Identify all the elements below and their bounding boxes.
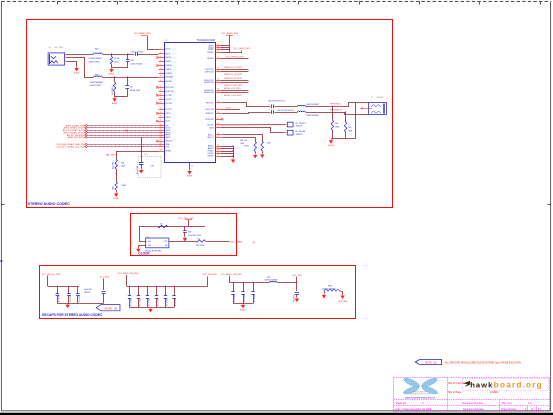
svg-text:HPLOUT: HPLOUT: [206, 102, 214, 104]
svg-text:GPIO1: GPIO1: [166, 113, 172, 115]
wire bias rail: [102, 77, 158, 79]
IC bottom pin ground: [189, 162, 191, 170]
svg-text:IOVDD: IOVDD: [208, 49, 214, 51]
wire down to R45: [116, 151, 118, 160]
svg-text:VCC_AVDD_1V8_RVS: VCC_AVDD_1V8_RVS: [221, 273, 242, 276]
svg-text:RLOPM: RLOPM: [166, 103, 173, 105]
svg-text:C70: C70: [144, 154, 147, 156]
svg-text:LEFTLOM: LEFTLOM: [205, 71, 214, 73]
svg-text:12: 12: [160, 94, 162, 96]
wire rc rail: [112, 67, 128, 69]
svg-text:www.innovativesolutions.net: www.innovativesolutions.net: [405, 397, 435, 400]
hawkboard logo frame: [463, 379, 549, 391]
decaps section box: [40, 266, 356, 319]
svg-text:4: 4: [160, 60, 161, 62]
svg-text:HPRCOM: HPRCOM: [206, 119, 214, 121]
op IC U9 TLV320AIC3106: [165, 39, 216, 162]
svg-text:17: 17: [160, 116, 162, 118]
capacitor g4: [295, 292, 299, 294]
svg-text:Page Number :: Page Number :: [502, 408, 518, 411]
svg-text:Document Number :: Document Number :: [462, 402, 485, 405]
svg-text:42: 42: [217, 112, 219, 114]
wire decap rail g2: [127, 286, 208, 288]
svg-text:28: 28: [160, 150, 162, 152]
svg-text:1608: 1608: [114, 61, 118, 63]
bus lines I2C: [56, 143, 158, 146]
svg-text:33: 33: [191, 166, 193, 168]
wire clock vcc rail: [140, 226, 205, 228]
svg-text:hawk: hawk: [470, 380, 493, 389]
svg-text:FB4: FB4: [95, 48, 98, 50]
svg-text:0.1uF/16V: 0.1uF/16V: [254, 294, 256, 302]
resistor R41 mic termination: [111, 54, 113, 57]
connector J6 mic jack: [48, 46, 64, 65]
company logo X: [403, 376, 439, 395]
svg-text:1608: 1608: [335, 126, 339, 128]
svg-text:9: 9: [160, 80, 161, 82]
svg-text:SCL: SCL: [166, 146, 170, 148]
wire HPLCOM short: [221, 109, 240, 111]
svg-text:0.1uF/16V: 0.1uF/16V: [79, 294, 81, 302]
svg-text:AGND: AGND: [109, 73, 115, 76]
svg-text:19: 19: [160, 124, 162, 126]
svg-text:VCC_DVDD_RVS: VCC_DVDD_RVS: [234, 48, 251, 50]
test pad TP2: [287, 130, 293, 135]
svg-text:Date : Friday, December 04, 20: Date : Friday, December 04, 2009: [396, 408, 433, 411]
junction: [111, 53, 112, 54]
title block dividers: [447, 378, 449, 412]
capacitor decap g3: [253, 282, 255, 291]
svg-text:OUT: OUT: [164, 241, 167, 243]
svg-text:I 04: I 04: [252, 242, 255, 244]
zone tick left: [1, 204, 5, 206]
svg-text:18: 18: [160, 120, 162, 122]
svg-text:TAS_TEST: TAS_TEST: [106, 153, 117, 156]
svg-text:TANT-B: TANT-B: [84, 291, 91, 294]
svg-text:47: 47: [217, 136, 219, 138]
svg-text:25: 25: [160, 140, 162, 142]
resistor R46: [254, 142, 257, 152]
svg-text:VCM: VCM: [226, 107, 231, 109]
svg-text:35: 35: [217, 70, 219, 72]
capacitor C65 bias filter: [127, 77, 129, 86]
wire AUX_L: [222, 135, 263, 142]
svg-text:LINE2L: LINE2L: [166, 69, 172, 71]
resistor R45: [115, 160, 118, 170]
IC left pins: [159, 48, 172, 51]
wire to HP jack L: [306, 103, 369, 107]
capacitor decap g2: [165, 286, 167, 295]
svg-text:15: 15: [160, 108, 162, 110]
svg-text:VCC_RVS: VCC_RVS: [100, 277, 110, 279]
svg-text:MICDET: MICDET: [166, 81, 174, 83]
capacitor C63 series: [135, 52, 137, 56]
svg-text:24: 24: [160, 136, 162, 138]
svg-text:0.1uF/16V: 0.1uF/16V: [293, 294, 295, 302]
capacitor decap g2: [129, 286, 131, 295]
svg-text:0.1uF/16V 1608: 0.1uF/16V 1608: [188, 235, 201, 237]
stereo audio codec section box: [27, 20, 393, 208]
svg-text:LINEOUT_LM_RVS: LINEOUT_LM_RVS: [224, 74, 242, 76]
svg-text:MIC_JACK: MIC_JACK: [55, 46, 65, 49]
svg-text:HPLCOM: HPLCOM: [166, 87, 174, 89]
svg-text:MIC3L: MIC3L: [166, 54, 171, 56]
svg-text:VCC_AUD_DL_RVS: VCC_AUD_DL_RVS: [42, 273, 61, 276]
wire R43 to label: [206, 241, 230, 243]
svg-text:2200pF 1608: 2200pF 1608: [130, 90, 141, 92]
svg-text:1: 1: [160, 48, 161, 50]
svg-text:1608: 1608: [113, 186, 115, 190]
svg-text:C64: C64: [131, 60, 134, 62]
svg-text:HP_SENSE: HP_SENSE: [296, 131, 306, 133]
svg-text:45: 45: [217, 126, 219, 128]
svg-text:0.1uF/16V: 0.1uF/16V: [140, 298, 142, 306]
ferrite bead FB5: [94, 76, 103, 77]
ground bridge right DGND: [340, 294, 344, 299]
svg-text:DRVDD: DRVDD: [207, 52, 214, 54]
capacitor tant 10uF: [102, 291, 106, 293]
svg-text:VCC_AVDD_3V3_RVS: VCC_AVDD_3V3_RVS: [118, 272, 139, 275]
pin stubs J6: [65, 54, 67, 56]
svg-text:33: 33: [217, 57, 219, 59]
svg-text:36: 36: [217, 79, 219, 81]
svg-text:10: 10: [160, 86, 162, 88]
svg-text:OSCILLATOR SMD: OSCILLATOR SMD: [145, 249, 162, 252]
svg-text:100R: 100R: [122, 185, 127, 187]
svg-text:34: 34: [217, 68, 219, 70]
capacitor decap g2: [156, 286, 158, 295]
svg-text:AGND: AGND: [328, 144, 334, 147]
wire LEFTLOP nets: [221, 69, 249, 71]
svg-text:I2S: I2S: [125, 130, 129, 132]
ferrite bead FB4: [94, 53, 103, 54]
note callout 30: [415, 360, 441, 365]
svg-text:1.0: 1.0: [528, 402, 532, 405]
svg-text:1608: 1608: [121, 166, 125, 168]
oscillator U10: [145, 237, 169, 253]
wire bead to cap: [102, 54, 134, 56]
svg-text:RESET: RESET: [166, 151, 173, 153]
svg-text:48: 48: [217, 145, 219, 147]
svg-text:1608-2P: 1608-2P: [296, 126, 304, 128]
svg-text:AUDIO: AUDIO: [490, 390, 499, 394]
svg-text:SCLK: SCLK: [166, 121, 171, 123]
svg-text:20: 20: [160, 126, 162, 128]
svg-text:DRVSS: DRVSS: [207, 156, 214, 158]
svg-text:OSC_24MHZ: OSC_24MHZ: [230, 241, 243, 243]
svg-text:VCC_RVS: VCC_RVS: [292, 275, 302, 277]
svg-text:49.9R: 49.9R: [114, 58, 120, 60]
resistor R48 pulldown L: [332, 106, 334, 120]
svg-text:C68: C68: [188, 232, 191, 234]
wire osc out: [169, 241, 196, 243]
svg-text:600R/100MHZ: 600R/100MHZ: [307, 115, 320, 117]
blue margin mark: [0, 260, 2, 262]
ground g1: [65, 303, 69, 308]
connector J7 headphone jack: [369, 96, 387, 115]
svg-text:STEREO AUDIO CODEC: STEREO AUDIO CODEC: [28, 202, 71, 206]
DNI option box: [138, 157, 161, 178]
svg-text:TLV320AIC3106: TLV320AIC3106: [197, 39, 216, 42]
svg-text:1608-2P: 1608-2P: [296, 134, 304, 136]
svg-text:LINEOUT_LP_RVS: LINEOUT_LP_RVS: [224, 67, 242, 69]
svg-text:J7: J7: [371, 97, 373, 99]
svg-text:HP_DETECT: HP_DETECT: [296, 123, 308, 125]
svg-text:MICBIAS: MICBIAS: [166, 76, 174, 79]
svg-text:0.1uF/16V: 0.1uF/16V: [70, 294, 72, 302]
svg-text:NOTE - 30: NOTE - 30: [425, 361, 437, 364]
svg-text:29: 29: [217, 44, 219, 46]
svg-text:51: 51: [217, 152, 219, 154]
resistor R47: [261, 141, 264, 151]
svg-text:16: 16: [160, 112, 162, 114]
capacitor decap g2: [174, 286, 176, 295]
svg-text:0.1uF/16V: 0.1uF/16V: [158, 298, 160, 306]
svg-text:10uF/16V: 10uF/16V: [84, 289, 93, 291]
svg-text:HPRCOM: HPRCOM: [166, 91, 174, 93]
wire decap rail g1: [48, 286, 79, 288]
svg-text:SDOUT: SDOUT: [207, 125, 214, 127]
svg-text:VCC_1V8_RVS: VCC_1V8_RVS: [203, 274, 218, 276]
svg-text:33R 1608: 33R 1608: [196, 245, 204, 247]
svg-text:LINE1L: LINE1L: [166, 61, 172, 63]
svg-text:600R/100MHZ: 600R/100MHZ: [307, 104, 320, 106]
svg-text:J6: J6: [49, 47, 51, 49]
wire ground rail HP: [331, 138, 355, 140]
svg-text:38: 38: [217, 89, 219, 91]
ground g2: [148, 308, 152, 313]
svg-text:22: 22: [160, 131, 162, 133]
svg-text:0.1uF/16V: 0.1uF/16V: [131, 298, 133, 306]
wire power to pin1: [148, 36, 159, 50]
ground AGND bias: [112, 97, 118, 105]
svg-text:CHS_GND: CHS_GND: [338, 301, 348, 303]
svg-text:HPHONE_L: HPHONE_L: [330, 104, 343, 106]
svg-text:3: 3: [160, 56, 161, 58]
svg-text:MFP3: MFP3: [166, 137, 171, 139]
svg-text:MONOLOM: MONOLOM: [204, 92, 214, 94]
svg-text:AFSR_1V8 WCLK: AFSR_1V8 WCLK: [68, 136, 85, 139]
svg-text:2.2K 1608: 2.2K 1608: [112, 87, 114, 95]
svg-text:600R@100MHZ: 600R@100MHZ: [265, 279, 279, 281]
svg-text:C63 0.1uF/16V: C63 0.1uF/16V: [131, 52, 144, 54]
wire R45 to R46b: [116, 169, 118, 182]
svg-text:46: 46: [217, 133, 219, 135]
svg-text:0.047uF 1608: 0.047uF 1608: [131, 63, 143, 65]
svg-text:RLOPP: RLOPP: [166, 109, 173, 111]
svg-text:37: 37: [217, 81, 219, 83]
ground AVSS: [231, 158, 235, 163]
wire AUX_R: [222, 138, 256, 142]
svg-text:0.1uF 1608: 0.1uF 1608: [137, 166, 139, 174]
svg-text:HPLCOM: HPLCOM: [206, 109, 214, 111]
svg-text:39: 39: [217, 91, 219, 93]
ground option cap: [139, 169, 143, 174]
svg-text:2: 2: [160, 52, 161, 54]
svg-text:21: 21: [160, 129, 162, 131]
svg-text:NOTE : 30: NOTE : 30: [104, 307, 117, 311]
svg-text:LINEOUT_RM_RVS: LINEOUT_RM_RVS: [224, 85, 243, 87]
svg-text:23: 23: [160, 134, 162, 136]
svg-text:FB10: FB10: [328, 285, 332, 287]
svg-text:MIC3R: MIC3R: [166, 57, 172, 59]
capacitor decap g2: [138, 286, 140, 295]
svg-text:AUX_L: AUX_L: [208, 133, 214, 136]
capacitor C66: [271, 104, 273, 108]
svg-text:40: 40: [217, 101, 219, 103]
wire HPVDD: [221, 58, 249, 60]
svg-text:7: 7: [160, 72, 161, 74]
svg-text:0.1uF/16V: 0.1uF/16V: [244, 294, 246, 302]
svg-text:DECAPS FOR STEREO AUDIO CODEC: DECAPS FOR STEREO AUDIO CODEC: [42, 313, 103, 317]
bottom black strip: [0, 413, 553, 415]
svg-text:31: 31: [217, 48, 219, 50]
no-connect X right pin: [221, 118, 223, 120]
wire mic sleeve: [67, 62, 77, 67]
ferrite bead FB7: [298, 110, 306, 113]
wire C63 to pin: [137, 54, 158, 56]
clock section box: [131, 214, 237, 256]
svg-text:SDIN: SDIN: [209, 128, 214, 130]
note callout in decaps: [96, 305, 120, 311]
wire bus to option cap: [141, 137, 143, 162]
svg-text:44: 44: [217, 123, 219, 125]
svg-text:RIGHTLOM: RIGHTLOM: [204, 82, 214, 84]
wire decap rail g3: [229, 282, 259, 284]
svg-text:52: 52: [217, 155, 219, 157]
svg-text:AGND: AGND: [112, 102, 118, 105]
ground bridge left AGND: [322, 294, 326, 299]
zone tick right: [547, 204, 551, 206]
capacitor decap g1: [77, 286, 79, 293]
wire decap bottom rail g2: [130, 307, 175, 309]
wire decap bottom rail g3: [233, 303, 253, 305]
wire AVSS bundle: [221, 146, 233, 148]
svg-text:MONO_LOP_RVS: MONO_LOP_RVS: [224, 88, 241, 90]
wire mic ring to bias: [67, 58, 94, 78]
svg-text:HPHONE_R: HPHONE_R: [330, 109, 343, 111]
svg-text:HPROUT: HPROUT: [206, 113, 214, 115]
ferrite bead FB9: [269, 280, 277, 283]
title block frame: [394, 378, 550, 412]
svg-text:50: 50: [217, 150, 219, 152]
wire C66 to bead: [275, 106, 298, 108]
svg-text:32: 32: [217, 51, 219, 53]
wire HPROUT: [222, 113, 271, 114]
svg-text:0.1uF/16V: 0.1uF/16V: [59, 294, 61, 302]
test pad TP1: [287, 122, 293, 127]
resistor R49 pulldown R: [345, 112, 347, 122]
bus lines I2S: [66, 124, 159, 127]
svg-text:of: of: [531, 408, 533, 411]
svg-text:FB5: FB5: [95, 75, 98, 77]
svg-text:AUX_R: AUX_R: [208, 136, 215, 139]
svg-text:C65: C65: [130, 86, 133, 88]
svg-text:6: 6: [160, 68, 161, 70]
jack switch contact arrow: [363, 108, 373, 110]
svg-text:43: 43: [217, 118, 219, 120]
svg-text:DNI: DNI: [151, 166, 155, 168]
svg-text:DGND: DGND: [113, 198, 119, 200]
svg-text:LLOPP: LLOPP: [166, 99, 173, 101]
pin stubs J7: [367, 102, 369, 104]
svg-text:0.1uF/16V: 0.1uF/16V: [234, 294, 236, 302]
wire mic tip: [67, 54, 94, 56]
wire bias gnd rail: [115, 96, 128, 98]
capacitor decap g1: [57, 286, 59, 293]
svg-text:R45 1608: R45 1608: [113, 162, 115, 169]
ground clock cap: [183, 237, 187, 242]
svg-text:27: 27: [160, 145, 162, 147]
resistor R44 pullup: [158, 225, 168, 228]
svg-text:14: 14: [160, 102, 162, 104]
wire osc gnd: [139, 246, 146, 248]
svg-text:LINE1R: LINE1R: [166, 65, 173, 67]
svg-text:0.1uF/16V: 0.1uF/16V: [167, 298, 169, 306]
svg-text:30: 30: [217, 46, 219, 48]
capacitor decap g3: [233, 282, 235, 291]
capacitor decap g2: [147, 286, 149, 295]
wire rail g3 to bead: [259, 282, 270, 284]
svg-text:AGND: AGND: [74, 72, 80, 75]
svg-text:1608: 1608: [240, 143, 244, 145]
svg-text:GPIO2: GPIO2: [166, 117, 172, 119]
ground g3 AGND: [240, 304, 246, 312]
wire jack sleeve down: [355, 103, 357, 139]
capacitor decap g3: [243, 282, 245, 291]
svg-text:11: 11: [160, 90, 162, 92]
svg-text:1000R/100MHZ: 1000R/100MHZ: [88, 58, 102, 60]
ground AGND HP: [328, 139, 334, 147]
ground clock: [136, 247, 140, 252]
IC right pins: [209, 44, 221, 47]
svg-text:49: 49: [217, 147, 219, 149]
resistor R46b: [115, 182, 118, 190]
ground R47: [260, 153, 264, 158]
wire vcc to osc: [140, 227, 146, 242]
svg-text:Page No :: Page No :: [396, 401, 408, 405]
svg-text:Rev / No :: Rev / No :: [502, 402, 513, 405]
svg-text:AGND: AGND: [240, 309, 246, 312]
svg-text:LLOPM: LLOPM: [166, 95, 173, 97]
wire C67 to bead: [275, 112, 298, 114]
svg-text:13: 13: [160, 98, 162, 100]
ground TAS chain: [116, 190, 118, 192]
ground R46: [253, 154, 257, 159]
capacitor C64: [127, 54, 129, 60]
wire RESET net: [116, 151, 158, 153]
svg-text:MCLK: MCLK: [166, 49, 172, 51]
svg-text:C67 47uF/6.3V POL: C67 47uF/6.3V POL: [277, 110, 294, 112]
wire power drop: [229, 35, 231, 53]
svg-text:I2C0_SCL_1V8 AIC_SCL_3V3: I2C0_SCL_1V8 AIC_SCL_3V3: [57, 146, 85, 149]
svg-text:LINE2R: LINE2R: [166, 73, 173, 75]
wire HPLOUT: [222, 103, 271, 107]
svg-text:L0805 1/10W: L0805 1/10W: [88, 62, 99, 64]
svg-text:R43: R43: [197, 238, 200, 240]
svg-text:SELECT: SELECT: [166, 141, 174, 143]
svg-text:1608: 1608: [348, 130, 352, 132]
svg-text:41: 41: [217, 108, 219, 110]
capacitor C67: [271, 110, 273, 114]
svg-text:ALL DECAPS SHOULD BE PLACE WIT: ALL DECAPS SHOULD BE PLACE WITHIN 3cm FR…: [445, 360, 521, 364]
zone ticks top: [57, 1, 59, 5]
svg-text:VCC_AVDD_RVS: VCC_AVDD_RVS: [134, 32, 151, 35]
ground AGND sleeve: [74, 67, 80, 75]
svg-text:1608: 1608: [267, 143, 271, 145]
capacitor decap g1: [68, 286, 70, 293]
svg-text:0.1uF/16V: 0.1uF/16V: [175, 298, 177, 306]
